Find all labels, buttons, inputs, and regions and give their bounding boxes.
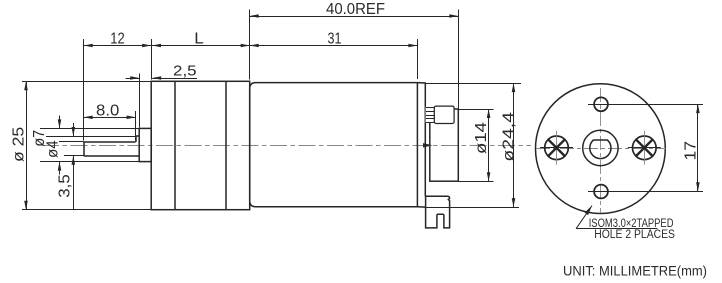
svg-text:ø4: ø4 — [45, 140, 62, 158]
svg-text:8.0: 8.0 — [96, 103, 120, 120]
svg-text:HOLE 2 PLACES: HOLE 2 PLACES — [594, 227, 675, 241]
svg-text:17: 17 — [683, 141, 700, 161]
svg-text:ø24,4: ø24,4 — [500, 112, 517, 162]
svg-text:ø14: ø14 — [473, 122, 490, 154]
svg-text:UNIT: MILLIMETRE(mm): UNIT: MILLIMETRE(mm) — [563, 264, 707, 280]
svg-text:31: 31 — [328, 31, 342, 48]
svg-text:ø 25: ø 25 — [11, 127, 28, 162]
svg-text:40.0REF: 40.0REF — [326, 1, 385, 18]
svg-text:2,5: 2,5 — [173, 63, 197, 80]
svg-text:L: L — [194, 31, 204, 48]
svg-text:3,5: 3,5 — [56, 174, 73, 198]
svg-text:12: 12 — [110, 31, 125, 48]
